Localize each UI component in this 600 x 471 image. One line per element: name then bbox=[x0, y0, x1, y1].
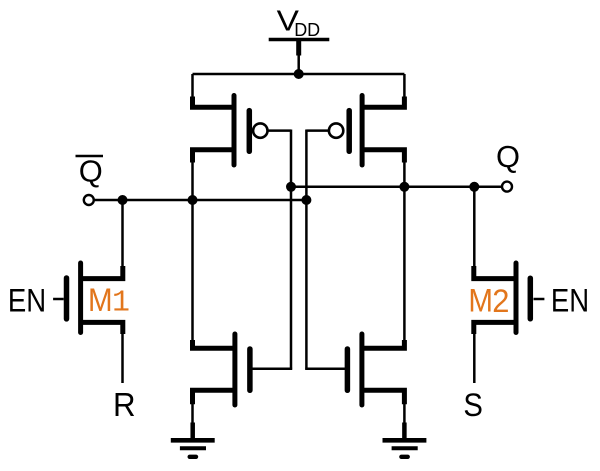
wire right nmos source to ground bbox=[403, 404, 406, 425]
wire left nmos source to ground bbox=[191, 404, 194, 425]
svg-text:DD: DD bbox=[294, 20, 320, 40]
node Qbar terminal bbox=[84, 195, 94, 205]
node Q terminal bbox=[502, 182, 512, 192]
ground right bbox=[383, 423, 427, 457]
ground left bbox=[171, 423, 215, 457]
nmos right (cross-coupled) bbox=[347, 334, 404, 405]
wire cross-couple vertical A bbox=[290, 130, 293, 370]
label M2 bbox=[468, 282, 509, 319]
wire cross-couple vertical B bbox=[305, 130, 308, 370]
wire Q horizontal bbox=[291, 186, 502, 189]
pmos right (cross-coupled) bbox=[329, 96, 405, 166]
wire M1 source down to R bbox=[121, 333, 124, 383]
junction left rail on Qbar wire bbox=[188, 195, 198, 205]
nmos left (cross-coupled) bbox=[193, 334, 250, 405]
svg-text:EN: EN bbox=[8, 282, 46, 318]
svg-text:1: 1 bbox=[112, 286, 130, 321]
wire right nmos gate lead bbox=[305, 367, 345, 370]
power VDD label bbox=[277, 5, 321, 40]
wire left nmos gate lead bbox=[253, 367, 293, 370]
svg-text:2: 2 bbox=[492, 282, 509, 319]
power VDD bar bbox=[269, 38, 330, 42]
wire right rail upper (top rail to PMOS source) bbox=[403, 74, 406, 98]
svg-text:EN: EN bbox=[551, 282, 589, 318]
wire Qbar horizontal bbox=[94, 199, 307, 202]
transistor M2 bbox=[474, 263, 531, 334]
wire M2 source down to S bbox=[473, 333, 476, 383]
junction node A on Q wire bbox=[286, 182, 296, 192]
wire M2 drain up to Q bbox=[473, 187, 476, 267]
wire left pmos gate to node A bbox=[268, 129, 292, 132]
power VDD stub bbox=[296, 40, 301, 75]
pmos left (cross-coupled) bbox=[193, 96, 268, 166]
wire right rail (pmos drain to nmos drain) bbox=[403, 162, 406, 341]
label M1 bbox=[88, 281, 130, 321]
junction M2 drain on Q wire bbox=[469, 182, 479, 192]
svg-text:M: M bbox=[468, 282, 493, 319]
wire left rail upper (top rail to PMOS source) bbox=[191, 74, 194, 98]
wire left rail (pmos drain to nmos drain) bbox=[191, 162, 194, 341]
svg-text:M: M bbox=[88, 281, 113, 318]
svg-text:S: S bbox=[463, 387, 483, 423]
junction at VDD on top rail bbox=[294, 69, 304, 79]
transistor M1 bbox=[67, 263, 123, 334]
junction M1 drain on Qbar wire bbox=[118, 195, 128, 205]
wire EN to M2 gate bbox=[534, 298, 545, 301]
wire top rail bbox=[193, 73, 405, 76]
junction right rail on Q wire bbox=[399, 182, 409, 192]
wire EN to M1 gate bbox=[53, 298, 64, 301]
junction node B on Qbar wire bbox=[301, 195, 311, 205]
svg-text:R: R bbox=[113, 386, 136, 423]
svg-text:Q: Q bbox=[496, 140, 520, 174]
wire M1 drain up to Qbar bbox=[121, 200, 124, 267]
wire right pmos gate to node B bbox=[306, 129, 329, 132]
node Qbar label bbox=[76, 155, 104, 189]
svg-text:Q: Q bbox=[79, 155, 103, 189]
